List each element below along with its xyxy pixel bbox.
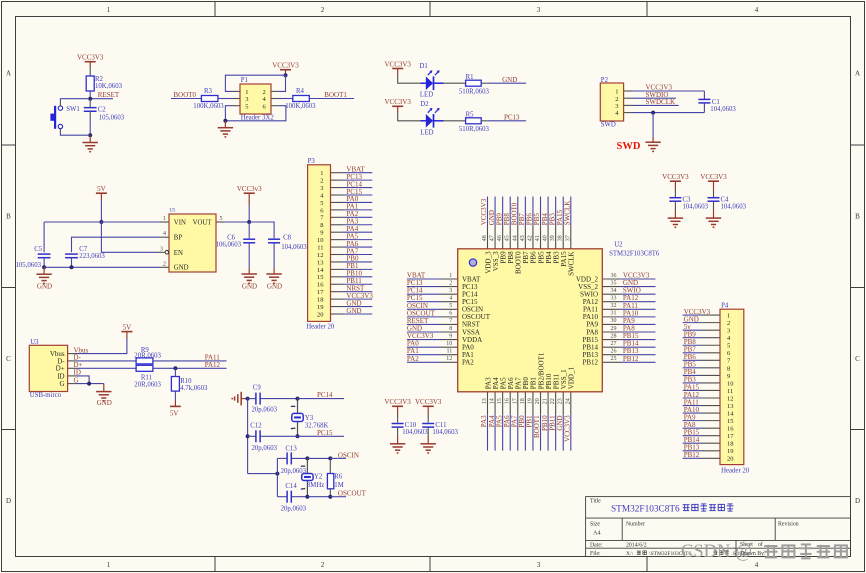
resistor R4 <box>293 96 310 102</box>
header P3 body <box>308 165 331 322</box>
svg-text:11: 11 <box>727 388 733 395</box>
wire U2 pin2 <box>407 286 441 288</box>
wire P4 pin7 <box>683 359 701 361</box>
svg-text:1: 1 <box>449 273 452 279</box>
wire U2 pin36 <box>620 278 655 280</box>
wire U2 pin8 <box>407 331 441 333</box>
svg-text:18: 18 <box>520 398 526 404</box>
wire node to C2 <box>89 99 91 108</box>
svg-text:10: 10 <box>446 341 452 347</box>
power 5V (reg) <box>96 185 107 200</box>
header P2 pins <box>624 91 632 113</box>
svg-text:19: 19 <box>527 398 533 404</box>
junction R6 bottom <box>328 495 332 499</box>
junction osc loop <box>275 472 279 476</box>
svg-text:20: 20 <box>317 311 324 318</box>
svg-text:C5: C5 <box>34 246 43 253</box>
capacitor C9 <box>255 393 257 405</box>
svg-text:P3: P3 <box>308 158 316 165</box>
svg-text:Header 20: Header 20 <box>721 468 750 475</box>
svg-text:5: 5 <box>727 343 730 350</box>
svg-text:C7: C7 <box>79 246 88 253</box>
svg-text:8MHz: 8MHz <box>307 482 324 489</box>
svg-text:18: 18 <box>727 441 734 448</box>
svg-text:C12: C12 <box>250 422 262 429</box>
power VCC3v3 (reg out) <box>237 185 262 205</box>
wire C11 top <box>427 415 429 423</box>
ground (swd) <box>652 137 654 142</box>
resistor R2 <box>86 76 94 91</box>
wire U2 pin23 <box>562 414 564 450</box>
svg-text:PC13: PC13 <box>504 114 520 122</box>
wire P3 pin15 <box>343 276 372 278</box>
wire U2 pin30 <box>620 323 655 325</box>
wire R6 riser <box>329 458 331 473</box>
svg-text:RESET: RESET <box>98 91 120 99</box>
svg-text:Y2: Y2 <box>314 473 323 480</box>
svg-text:C4: C4 <box>721 196 730 203</box>
svg-text:VCC3V3: VCC3V3 <box>564 415 572 442</box>
header P1 body <box>240 84 271 114</box>
svg-text:BOOT1: BOOT1 <box>324 91 347 99</box>
diode D2 LED <box>426 114 433 128</box>
wire C10 bottom <box>397 427 399 436</box>
svg-text:SWD: SWD <box>601 122 616 129</box>
svg-text:46: 46 <box>497 235 503 241</box>
svg-text:9: 9 <box>449 333 452 339</box>
wire P4 pin4 <box>683 337 701 339</box>
regulator U5 body <box>169 214 216 272</box>
svg-text:D: D <box>855 497 860 505</box>
svg-text:C11: C11 <box>435 422 446 429</box>
svg-text:37: 37 <box>565 235 571 241</box>
ground (usb) <box>103 384 105 392</box>
svg-text:27: 27 <box>611 341 617 347</box>
wire U2 pin35 <box>620 286 655 288</box>
wire P3 pin6 <box>343 209 372 211</box>
svg-text:29: 29 <box>611 326 617 332</box>
svg-text:Title: Title <box>590 499 601 505</box>
header P2 body <box>600 83 623 121</box>
svg-text:1: 1 <box>163 216 166 222</box>
U3 pin names <box>50 350 65 388</box>
svg-text:11: 11 <box>447 349 453 355</box>
wire U2 pin16 <box>509 414 511 450</box>
svg-text:12: 12 <box>727 395 734 402</box>
svg-text:9: 9 <box>320 230 323 237</box>
junction usb gnd <box>87 382 91 386</box>
P2 pin numbers <box>615 89 619 118</box>
svg-text:B: B <box>6 213 11 221</box>
svg-text:7: 7 <box>449 318 452 324</box>
svg-text:EN: EN <box>174 250 183 257</box>
wire P4 pin18 <box>683 442 701 444</box>
svg-text:3: 3 <box>537 561 541 569</box>
wire R3 to P1 pin3 <box>218 98 233 100</box>
wire P2 pin4 to gnd <box>632 112 704 114</box>
wire P1 pin4 to R4 <box>279 98 293 100</box>
svg-text:16: 16 <box>505 398 511 404</box>
svg-text:PB12: PB12 <box>623 355 639 363</box>
wire U2 pin46 <box>502 197 504 227</box>
svg-text:100K,0603: 100K,0603 <box>193 103 224 110</box>
wire C7 to gnd rail <box>71 258 73 268</box>
svg-text:5V: 5V <box>170 409 179 417</box>
svg-text:4: 4 <box>163 231 166 237</box>
wire C14 to Y2 bottom <box>291 496 307 498</box>
svg-text:15: 15 <box>317 274 324 281</box>
U2 pin names bottom <box>484 352 575 389</box>
junction Y3 bottom <box>296 434 300 438</box>
svg-text:16: 16 <box>727 426 734 433</box>
svg-text:Date:: Date: <box>590 542 603 548</box>
svg-text:SW1: SW1 <box>66 106 80 113</box>
svg-text:17: 17 <box>512 398 518 404</box>
svg-text:C6: C6 <box>227 234 236 241</box>
wire P2 pin2 SWDIO <box>632 97 676 99</box>
wire P3 pin10 <box>343 239 372 241</box>
wire R4 to BOOT1 <box>309 98 354 100</box>
resistor R9 <box>136 358 153 364</box>
svg-text:30: 30 <box>611 318 617 324</box>
svg-text:R11: R11 <box>141 374 152 381</box>
wire U2 pin40 <box>547 197 549 227</box>
svg-text:Revision: Revision <box>778 522 799 528</box>
wire R5 to PC13 label <box>487 120 526 122</box>
wire PC14 label <box>298 398 345 400</box>
svg-text:GND: GND <box>37 283 52 291</box>
wire C4 top <box>713 190 715 198</box>
wire U2 pin6 <box>407 316 441 318</box>
capacitor C10 <box>392 423 404 425</box>
svg-text:C2: C2 <box>98 106 107 113</box>
svg-text:1: 1 <box>107 561 111 569</box>
svg-text:42: 42 <box>527 235 533 241</box>
svg-text:A: A <box>855 70 860 78</box>
svg-text:BOOT0: BOOT0 <box>174 91 197 99</box>
svg-text:4.7k,0603: 4.7k,0603 <box>180 385 208 392</box>
svg-text:35: 35 <box>611 280 617 286</box>
svg-text:P4: P4 <box>721 302 729 309</box>
wire P4 pin17 <box>683 435 701 437</box>
wire U2 pin12 <box>407 361 441 363</box>
switch SW1 <box>50 106 62 129</box>
wire VCC to D1 <box>398 74 426 83</box>
junction C5 gnd <box>42 265 46 269</box>
svg-text:STM32F103C8T6: STM32F103C8T6 <box>609 251 660 258</box>
power VCC3V3 (D1) <box>384 60 411 74</box>
wire C13 to Y2 <box>291 457 307 459</box>
wire VIN rail <box>44 221 160 223</box>
svg-text:Y3: Y3 <box>305 415 314 422</box>
svg-text:VCC3V3: VCC3V3 <box>662 173 689 181</box>
svg-text:5V: 5V <box>123 323 132 331</box>
wire U2 pin7 <box>407 323 441 325</box>
wire U2 pin32 <box>620 308 655 310</box>
junction reset node <box>88 97 92 101</box>
wire P1 bottom loop <box>225 106 286 121</box>
U2 pins left <box>441 279 458 362</box>
svg-text:5: 5 <box>245 103 248 110</box>
wire P3 pin1 <box>343 172 372 174</box>
svg-text:510R,0603: 510R,0603 <box>459 88 490 95</box>
capacitor C4 <box>708 197 720 199</box>
wire D- to R9 <box>76 360 136 362</box>
junction R6 top <box>328 456 332 460</box>
svg-text:45: 45 <box>505 235 511 241</box>
wire BOOT0 to R3 <box>171 98 201 100</box>
U5 EN bubble <box>165 251 169 255</box>
U5 pin names <box>174 220 213 272</box>
wire P4 pin11 <box>683 389 701 391</box>
svg-text:R5: R5 <box>466 112 475 119</box>
svg-text:10K,0603: 10K,0603 <box>95 83 123 90</box>
border row letters A-D <box>6 70 860 506</box>
wire P3 pin9 <box>343 231 372 233</box>
svg-text:10: 10 <box>317 237 324 244</box>
wire P3 pin20 <box>343 313 372 315</box>
wire P3 pin16 <box>343 283 372 285</box>
border column numbers 1-4 <box>107 6 759 569</box>
wire G to gnd <box>76 383 104 385</box>
svg-text:VCC3V3: VCC3V3 <box>700 173 727 181</box>
svg-text:R10: R10 <box>180 378 192 385</box>
svg-text:104,0603: 104,0603 <box>710 106 736 113</box>
svg-text:PA2: PA2 <box>407 355 419 363</box>
capacitor C11 <box>422 423 434 425</box>
svg-text:SWCLK: SWCLK <box>568 251 576 276</box>
svg-text:23: 23 <box>558 398 564 404</box>
wire U2 pin17 <box>517 414 519 450</box>
power VCC3V3 (C3) <box>662 173 689 190</box>
wire P2 pin3 SWDCLK <box>632 104 679 106</box>
wire VOUT to C8 <box>249 222 274 238</box>
svg-text:5V: 5V <box>97 185 106 193</box>
wire R6 down <box>329 489 331 497</box>
svg-text:20p,0603: 20p,0603 <box>252 406 278 413</box>
ground sideways (xtal) <box>232 392 247 406</box>
svg-text:48: 48 <box>482 235 488 241</box>
wire C6 riser <box>248 222 250 238</box>
wire R5 stub <box>481 120 487 122</box>
diode D1 LED <box>426 76 433 90</box>
wire U2 pin26 <box>620 354 655 356</box>
svg-text:1: 1 <box>107 6 111 14</box>
wire R1 stub <box>481 82 487 84</box>
wire P4 pin20 <box>683 457 701 459</box>
capacitor C2 <box>84 107 97 109</box>
wire P3 pin7 <box>343 216 372 218</box>
svg-text:8: 8 <box>727 365 730 372</box>
svg-text:104,0603: 104,0603 <box>432 429 458 436</box>
svg-text:2: 2 <box>727 320 730 327</box>
svg-text:25: 25 <box>611 356 617 362</box>
svg-text:C8: C8 <box>283 234 292 241</box>
ground (C11) <box>427 436 429 444</box>
wire C4 bottom <box>713 201 715 210</box>
wire U2 pin10 <box>407 346 441 348</box>
svg-text:GND: GND <box>502 76 517 84</box>
wire OSCOUT label <box>330 496 346 498</box>
ground (C3) <box>674 210 676 218</box>
svg-text:GND: GND <box>97 399 112 407</box>
U2 pins bottom <box>488 392 571 414</box>
resistor R10 <box>171 377 179 392</box>
svg-text:4: 4 <box>755 6 759 14</box>
svg-text:18: 18 <box>317 297 324 304</box>
ground (C10) <box>397 436 399 444</box>
svg-text:33: 33 <box>611 296 617 302</box>
wire VCC to D2 <box>398 112 426 121</box>
wire U2 pin4 <box>407 301 441 303</box>
wire C8 down <box>273 243 275 268</box>
svg-text:6: 6 <box>449 311 452 317</box>
wire gnd to C9 <box>248 398 256 400</box>
svg-text:43: 43 <box>520 235 526 241</box>
svg-text:14: 14 <box>727 410 734 417</box>
wire U2 pin22 <box>555 414 557 450</box>
wire C1 riser top <box>703 91 705 99</box>
svg-text:20R,0603: 20R,0603 <box>134 381 161 388</box>
wire U2 pin11 <box>407 354 441 356</box>
svg-text:VCC3V3: VCC3V3 <box>415 398 442 406</box>
svg-text:22: 22 <box>550 398 556 404</box>
svg-text:105,0603: 105,0603 <box>16 262 42 269</box>
svg-text:2: 2 <box>163 261 166 267</box>
wire C2 to gnd node <box>89 111 91 135</box>
wire osc left vertical <box>276 458 278 496</box>
wire P2 pin1 VCC3V3 <box>632 90 704 92</box>
svg-text:1M: 1M <box>334 482 343 489</box>
svg-text:4: 4 <box>755 561 759 569</box>
wire VOUT rail <box>225 221 249 223</box>
junction gnd node <box>88 133 92 137</box>
wire gnd to C12 <box>248 435 256 437</box>
svg-text:PA12: PA12 <box>205 361 221 369</box>
resistor R11 <box>136 365 153 371</box>
svg-text:104,0603: 104,0603 <box>402 429 428 436</box>
svg-text:21: 21 <box>543 398 549 404</box>
wire P4 pin12 <box>683 397 701 399</box>
wire R1 to GND label <box>487 82 526 84</box>
junction VOUT node <box>247 220 251 224</box>
wire P3 pin11 <box>343 246 372 248</box>
svg-text:P1: P1 <box>241 77 248 84</box>
junction P1 vcc node <box>284 73 288 77</box>
U2 pins right <box>602 279 620 362</box>
wire U2 pin47 <box>494 197 496 227</box>
svg-text:10: 10 <box>727 380 734 387</box>
wire C3 top <box>674 190 676 198</box>
wire P4 pin13 <box>683 405 701 407</box>
U2 pins top <box>488 227 571 249</box>
capacitor C3 <box>669 197 681 199</box>
svg-text:Header 20: Header 20 <box>306 323 335 330</box>
power VCC3V3 (C10) <box>384 398 411 414</box>
U2 pin names right <box>576 275 599 366</box>
svg-text:U5: U5 <box>170 208 176 213</box>
svg-text:1: 1 <box>615 89 618 96</box>
wire Vbus to 5V <box>76 339 127 354</box>
junction P1 gnd node <box>223 119 227 123</box>
wire C10 top <box>397 415 399 423</box>
ground (reset) <box>89 135 91 142</box>
P1 pin numbers <box>245 89 266 110</box>
U5 pin numbers <box>160 216 223 267</box>
wire U2 pin14 <box>494 414 496 450</box>
wire U2 pin13 <box>487 414 489 450</box>
title block labels <box>590 499 799 557</box>
svg-text:19: 19 <box>317 304 324 311</box>
watermark CSDN <box>681 542 847 562</box>
U2 pin numbers right <box>611 273 617 362</box>
wire P4 pin14 <box>683 412 701 414</box>
header P1 pins left <box>233 91 240 105</box>
wire P3 pin12 <box>343 254 372 256</box>
svg-text:3: 3 <box>727 328 730 335</box>
junction Y3 top <box>296 397 300 401</box>
capacitor C8 <box>268 238 280 240</box>
svg-text:2: 2 <box>320 178 323 185</box>
svg-text:38: 38 <box>558 235 564 241</box>
wire U2 pin25 <box>620 361 655 363</box>
svg-text:44: 44 <box>512 235 518 241</box>
junction Y2 top <box>305 456 309 460</box>
wire R2 to reset node <box>89 91 91 99</box>
svg-text:C3: C3 <box>683 196 692 203</box>
svg-text:B: B <box>855 213 860 221</box>
svg-text:31: 31 <box>611 311 617 317</box>
svg-text:15: 15 <box>727 418 734 425</box>
file path text <box>626 551 751 557</box>
svg-text:100K,0603: 100K,0603 <box>285 103 316 110</box>
svg-text:OSCOUT: OSCOUT <box>338 489 367 497</box>
svg-text:41: 41 <box>535 235 541 241</box>
power VCC3V3 (C4) <box>700 173 727 190</box>
resistor R6 <box>327 474 333 489</box>
svg-text:C14: C14 <box>285 483 297 490</box>
svg-text:11: 11 <box>317 244 323 251</box>
svg-text:C9: C9 <box>253 385 262 392</box>
svg-text:2: 2 <box>321 6 325 14</box>
wire C1 riser bottom <box>703 103 705 113</box>
wire R10 riser <box>174 368 176 376</box>
wire D+ to R11 <box>76 367 136 369</box>
svg-text:VOUT: VOUT <box>193 220 213 227</box>
wire C5 riser <box>43 222 45 252</box>
svg-text:40: 40 <box>543 235 549 241</box>
svg-text:3: 3 <box>160 246 163 252</box>
wire C11 bottom <box>427 427 429 436</box>
wire U2 pin42 <box>532 197 534 227</box>
svg-text:3: 3 <box>449 288 452 294</box>
wire U2 pin37 <box>570 197 572 227</box>
svg-text:32: 32 <box>611 303 617 309</box>
wire Y2 to R6 bottom <box>307 496 330 498</box>
mcu U2 body <box>458 249 603 392</box>
svg-text:VCC3v3: VCC3v3 <box>237 185 262 193</box>
svg-text:C: C <box>855 355 860 363</box>
capacitor C6 <box>243 238 255 240</box>
svg-text:34: 34 <box>611 288 617 294</box>
wire osc to C14 <box>277 496 287 498</box>
USB U3 body <box>29 345 67 391</box>
svg-text:PB12: PB12 <box>582 359 598 367</box>
ground (C4) <box>713 210 715 218</box>
capacitor C7 <box>65 253 78 255</box>
svg-text:20R,0603: 20R,0603 <box>134 353 161 360</box>
ground (C6) <box>248 268 250 274</box>
